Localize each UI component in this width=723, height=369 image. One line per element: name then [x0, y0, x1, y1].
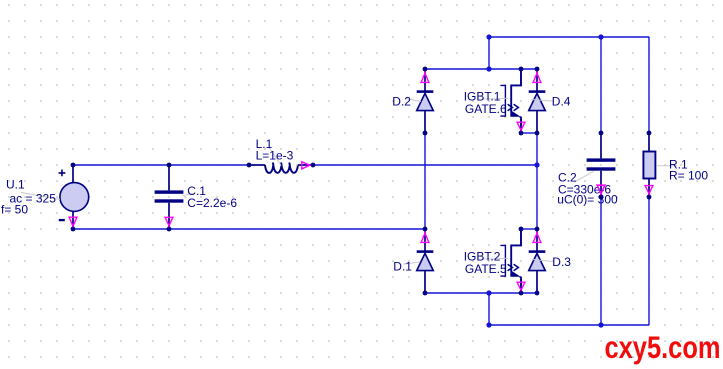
inductor L.1 (L=1e-3)	[247, 137, 316, 173]
node mid rail meets right column	[534, 162, 539, 167]
wire DC+ top rail	[489, 36, 649, 38]
diode D.4	[529, 67, 571, 136]
wire IGBT.2 collector to D.3 cathode	[521, 228, 537, 230]
wire source+ to L.1 pin1 (top rail)	[73, 164, 249, 166]
wire IGBT.1 emitter to D.4 anode	[521, 132, 537, 134]
svg-text:D.4: D.4	[552, 95, 571, 109]
diode D.3	[529, 227, 572, 296]
diode D.1	[393, 227, 433, 296]
node DC+ rail corner junction	[486, 34, 491, 39]
wire L.1 pin2 to right bridge column (mid rail)	[313, 164, 537, 166]
wire DC- rail up to R.1 pin2	[648, 197, 650, 325]
svg-text:D.1: D.1	[393, 259, 412, 273]
wire C.2 pin2 down to DC- rail	[600, 197, 602, 325]
node C.2 tap on DC- rail	[598, 322, 603, 327]
node C.2 tap on DC+ rail	[598, 34, 603, 39]
svg-text:D.2: D.2	[392, 95, 411, 109]
wire DC+ rail down to C.2 pin1	[600, 37, 602, 133]
wire D.2 anode to D.1 cathode (left column)	[424, 133, 426, 229]
wire source- to D.1 anode (bottom-left rail)	[73, 228, 425, 230]
svg-text:L=1e-3: L=1e-3	[256, 149, 294, 163]
svg-text:cxy5.com: cxy5.com	[605, 329, 721, 365]
svg-text:R= 100: R= 100	[669, 169, 708, 183]
svg-text:D.3: D.3	[552, 255, 571, 269]
wire bridge bottom rail	[425, 292, 537, 294]
resistor R.1 (R=100)	[643, 131, 708, 200]
svg-text:GATE.5: GATE.5	[465, 262, 507, 276]
node DC- rail corner junction	[486, 322, 491, 327]
capacitor C.2	[574, 131, 615, 200]
wire right column D.4 anode to D.3 cathode	[536, 133, 538, 229]
IGBT IGBT.1 with gate GATE.6	[464, 67, 525, 136]
wire DC+ rail down to R.1 pin1	[648, 37, 650, 133]
svg-text:U.1: U.1	[6, 178, 25, 192]
svg-text:GATE.6: GATE.6	[465, 102, 507, 116]
wire drop bridge bottom to DC- rail	[488, 293, 490, 325]
svg-text:uC(0)= 300: uC(0)= 300	[557, 193, 618, 207]
IGBT IGBT.2 with gate GATE.5	[464, 227, 525, 296]
capacitor C.2 reference arrow and pin	[597, 185, 605, 193]
svg-text:C=2.2e-6: C=2.2e-6	[187, 196, 237, 210]
node drop on bridge bottom rail	[486, 290, 491, 295]
capacitor C.1	[155, 163, 238, 232]
node riser on bridge top rail	[486, 66, 491, 71]
wire riser bridge top to DC+ rail	[488, 37, 490, 69]
AC source U.1 (ac=325, f=50)	[1, 163, 89, 232]
diode D.2	[392, 67, 433, 136]
wire bridge top rail	[425, 68, 537, 70]
wire DC- bottom rail	[489, 324, 649, 326]
svg-text:f= 50: f= 50	[1, 202, 28, 216]
